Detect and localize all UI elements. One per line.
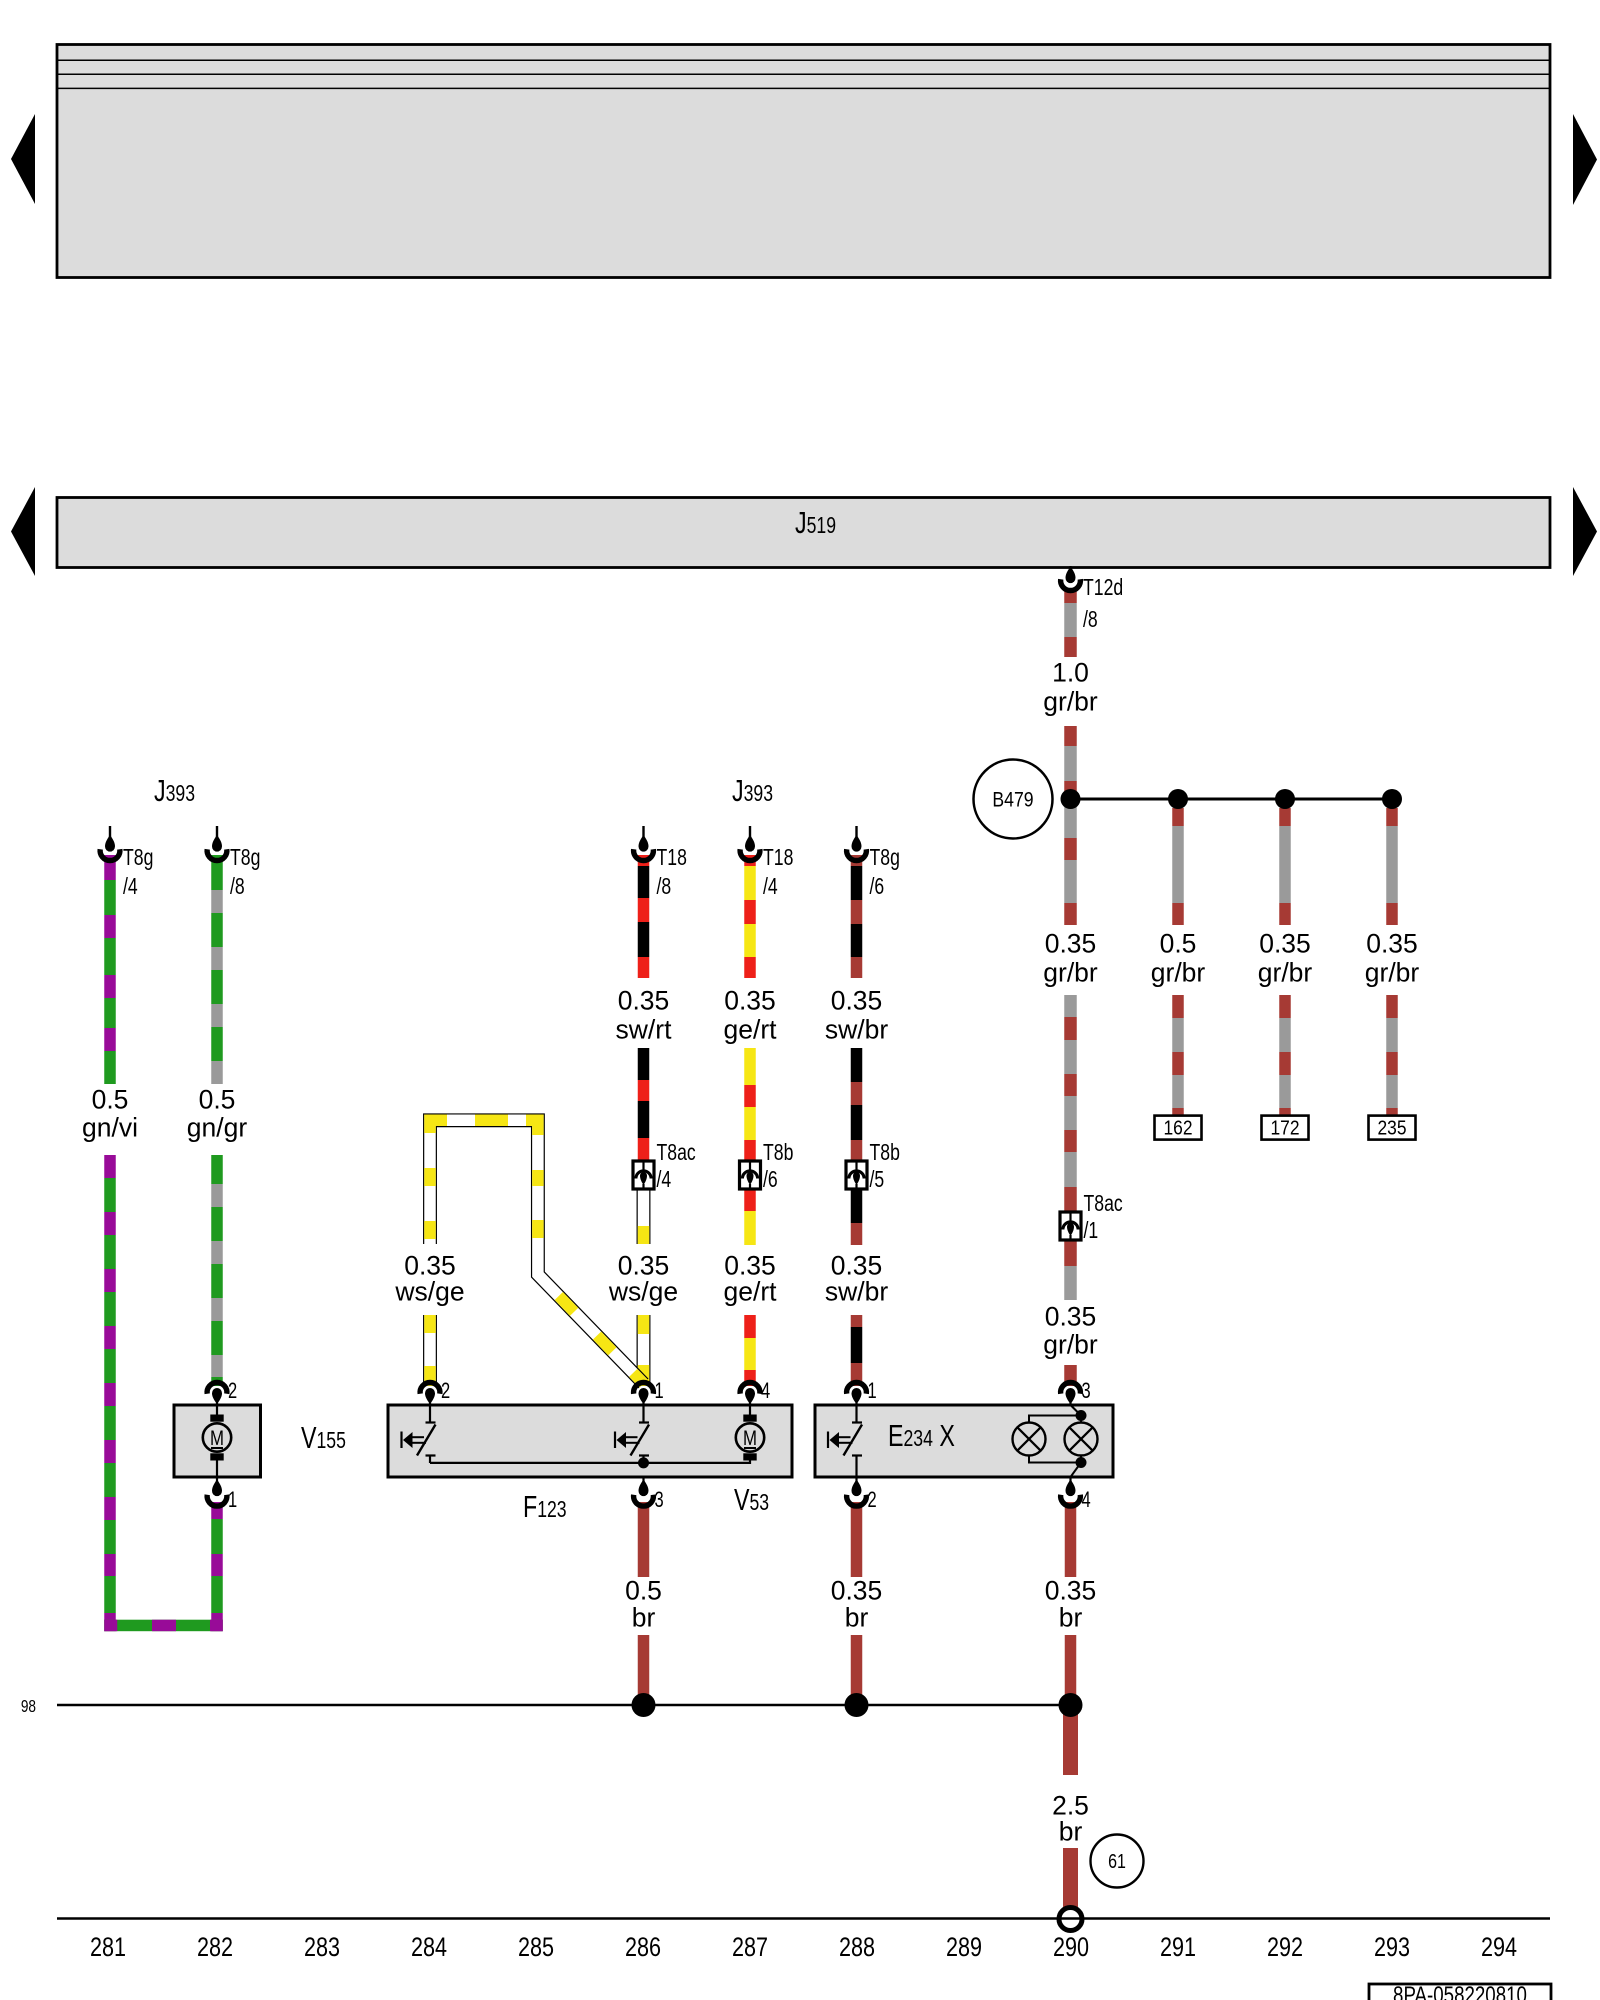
svg-text:/1: /1 (1084, 1218, 1099, 1244)
svg-text:3: 3 (655, 1488, 664, 1513)
svg-text:/8: /8 (230, 874, 245, 900)
svg-text:283: 283 (304, 1933, 340, 1963)
svg-text:3: 3 (1082, 1379, 1091, 1404)
wire ws/ge below T8ac/4 (637, 1189, 651, 1244)
wire gn/vi from V155 pin 1 (211, 1502, 223, 1631)
wire label 0.35 gr/br (lower) (1043, 1301, 1098, 1359)
svg-text:2: 2 (868, 1488, 877, 1513)
wire 0.5 gn/gr column 282 (upper) (211, 855, 223, 1084)
wire label 2.5 br (1052, 1790, 1089, 1846)
svg-text:br: br (1059, 1602, 1083, 1632)
wire label 0.35 sw/rt (616, 985, 673, 1044)
switch E234 box (815, 1405, 1113, 1477)
svg-text:/4: /4 (763, 874, 778, 900)
wire 0.35 br from E234 pin 2 (851, 1502, 863, 1577)
wire 0.35 br from E234 pin 4 (1065, 1502, 1077, 1577)
svg-text:/8: /8 (657, 874, 672, 900)
lamp junction dot bottom (1076, 1457, 1087, 1468)
svg-text:ws/ge: ws/ge (608, 1276, 678, 1306)
node junction dot 292 (1275, 789, 1295, 809)
bottom rail (57, 1917, 1550, 1920)
wire label 0.35 gr/br column 290 (1043, 928, 1098, 987)
svg-text:F123: F123 (523, 1489, 567, 1524)
svg-text:172: 172 (1270, 1117, 1299, 1140)
pin 1 of V155 (207, 1477, 237, 1513)
svg-text:293: 293 (1374, 1933, 1410, 1963)
svg-text:T18: T18 (657, 845, 687, 871)
svg-text:0.35: 0.35 (1045, 928, 1097, 958)
wire sw/br (above T8b/5) (851, 1048, 863, 1161)
svg-text:/5: /5 (870, 1167, 885, 1193)
pin 4 of V53 (740, 1379, 770, 1405)
svg-text:/8: /8 (1083, 607, 1098, 633)
connector T8g/8 (207, 826, 260, 900)
wire label 0.35 ge/rt (723, 985, 777, 1044)
inline connector T8ac/1 (1060, 1191, 1123, 1244)
svg-text:0.5: 0.5 (199, 1084, 236, 1114)
ground junction dot 290 (1059, 1693, 1083, 1717)
svg-text:gr/br: gr/br (1151, 957, 1206, 987)
svg-text:gr/br: gr/br (1258, 957, 1313, 987)
pin 3 of F123 (634, 1477, 664, 1513)
svg-text:0.35: 0.35 (1045, 1575, 1097, 1605)
connector T12d/8 on J519 (1061, 566, 1124, 633)
lamp internal wiring top (1029, 1405, 1081, 1423)
svg-text:1: 1 (868, 1379, 877, 1404)
connector T8g/6 (847, 826, 900, 900)
inline connector T8b/5 (846, 1140, 900, 1193)
wire 0.35 br to ground node (288) (851, 1635, 863, 1705)
node junction dot 290 (1061, 789, 1081, 809)
svg-text:8PA-058220810: 8PA-058220810 (1393, 1982, 1527, 2000)
page-turn arrow left (top) (11, 114, 35, 204)
node line to B479 branches (1071, 798, 1393, 801)
wire gn/vi bottom elbow (horizontal) (104, 1620, 223, 1632)
switch unit F123 box (388, 1405, 792, 1477)
wire 0.5 gn/vi column 281 (upper) (104, 855, 116, 1084)
svg-text:0.35: 0.35 (618, 985, 670, 1015)
svg-text:0.35: 0.35 (831, 1575, 883, 1605)
wire label 0.5 gn/gr (187, 1084, 248, 1142)
wire gr/br column 290 (middle) (1064, 995, 1077, 1212)
wire label 0.35 br (column 290) (1045, 1575, 1097, 1632)
motor symbol M (V53) (736, 1405, 764, 1461)
wire gr/br column 293 (lower) (1386, 995, 1398, 1116)
svg-text:br: br (1059, 1816, 1083, 1846)
svg-text:T8g: T8g (123, 845, 153, 871)
wire sw/rt (above T8ac/4) (638, 1048, 650, 1161)
wire ge/rt into V53 pin 4 (744, 1315, 756, 1386)
wire 1.0 gr/br (above node B479) (1064, 726, 1077, 799)
svg-text:286: 286 (625, 1933, 661, 1963)
wire ws/ge loop (pin2 up, across, down, diagonal to pin1) (430, 1120, 644, 1383)
connector T8g/4 (100, 826, 153, 900)
wire label 0.35 br (column 288) (831, 1575, 883, 1632)
wire ws/ge into F123 pin 2 (423, 1315, 437, 1386)
current track numbers 281-294 (90, 1933, 1517, 1963)
connector T18/4 (740, 826, 793, 900)
wire 0.35 sw/rt (upper) (638, 855, 650, 978)
svg-text:gr/br: gr/br (1365, 957, 1420, 987)
wire sw/br below T8b/5 (851, 1189, 863, 1245)
wire 2.5 br (upper) (1063, 1711, 1078, 1775)
svg-text:/4: /4 (657, 1167, 672, 1193)
svg-text:gn/gr: gn/gr (187, 1112, 248, 1142)
svg-text:0.35: 0.35 (724, 985, 776, 1015)
svg-text:/6: /6 (763, 1167, 778, 1193)
page-turn arrow right (J519) (1573, 487, 1597, 576)
wire gn/vi column 281 (lower) (104, 1155, 116, 1631)
wire 0.35 sw/br (upper) (851, 855, 863, 978)
wire label 0.35 sw/br (lower) (825, 1250, 888, 1306)
svg-text:sw/rt: sw/rt (616, 1014, 673, 1044)
wire 1.0 gr/br from T12d (upper) (1064, 589, 1077, 657)
wire gr/br column 293 (upper) (1386, 808, 1398, 925)
switch contact F123 (pin 2) (402, 1405, 436, 1463)
svg-text:1.0: 1.0 (1052, 657, 1089, 687)
svg-text:gr/br: gr/br (1043, 957, 1098, 987)
wire 0.5 br to ground node (638, 1635, 650, 1705)
svg-text:T8g: T8g (230, 845, 260, 871)
svg-text:287: 287 (732, 1933, 768, 1963)
svg-text:1: 1 (655, 1379, 664, 1404)
svg-text:291: 291 (1160, 1933, 1196, 1963)
svg-text:162: 162 (1163, 1117, 1192, 1140)
svg-text:282: 282 (197, 1933, 233, 1963)
wire gr/br column 290 (below node) (1064, 799, 1077, 925)
ground connection 61 circle (1091, 1835, 1144, 1888)
wire label 0.5 br (625, 1575, 662, 1632)
internal junction dot F123 (638, 1457, 649, 1468)
wire gr/br column 292 (lower) (1279, 995, 1291, 1116)
svg-text:sw/br: sw/br (825, 1276, 888, 1306)
pin 4 of E234 (1061, 1477, 1091, 1513)
wire label 0.35 gr/br column 292 (1258, 928, 1313, 987)
ground junction dot 286 (632, 1693, 656, 1717)
svg-text:281: 281 (90, 1933, 126, 1963)
node junction dot 293 (1382, 789, 1402, 809)
svg-text:sw/br: sw/br (825, 1014, 888, 1044)
wire ws/ge into F123 pin 1 (vertical) (637, 1315, 651, 1386)
control module bar (top, unlabeled) (57, 45, 1550, 278)
svg-text:0.35: 0.35 (831, 985, 883, 1015)
wire gr/br into E234 pin 3 (1064, 1365, 1077, 1386)
svg-text:br: br (632, 1602, 656, 1632)
control module J519 bar (57, 498, 1550, 568)
internal bus line F123 (430, 1460, 750, 1463)
wire label 0.35 ws/ge (column 286) (608, 1250, 678, 1306)
wire gr/br column 291 (upper) (1172, 808, 1184, 925)
wire label 1.0 gr/br (1043, 657, 1098, 716)
page-turn arrow right (top) (1573, 114, 1597, 205)
wire destination box 162 (1155, 1116, 1202, 1140)
svg-text:B479: B479 (992, 788, 1033, 812)
pin 1 of E234 (847, 1379, 877, 1405)
svg-text:290: 290 (1053, 1933, 1089, 1963)
svg-text:br: br (845, 1602, 869, 1632)
svg-text:0.5: 0.5 (625, 1575, 662, 1605)
inline connector T8b/6 (740, 1140, 794, 1193)
svg-text:T8b: T8b (870, 1140, 900, 1166)
wire ge/rt below T8b/6 (744, 1189, 756, 1245)
svg-text:ge/rt: ge/rt (723, 1014, 777, 1044)
svg-text:/6: /6 (870, 874, 885, 900)
pin 3 of E234 (1061, 1379, 1091, 1405)
svg-text:T8ac: T8ac (657, 1140, 696, 1166)
node junction dot 291 (1168, 789, 1188, 809)
svg-text:gn/vi: gn/vi (82, 1112, 138, 1142)
lead V155 motor to pin 1 (216, 1460, 218, 1477)
lamp symbol left (E234 illumination) (1013, 1423, 1046, 1456)
pin 1 of F123 (634, 1379, 664, 1405)
wire gr/br below T8ac/1 (1064, 1240, 1077, 1300)
svg-text:J393: J393 (732, 773, 773, 808)
pin 2 of F123 (420, 1379, 450, 1405)
svg-text:T8b: T8b (763, 1140, 793, 1166)
svg-text:T8g: T8g (870, 845, 900, 871)
wire 0.35 ge/rt (upper) (744, 855, 756, 978)
svg-text:4: 4 (1082, 1488, 1091, 1513)
svg-text:285: 285 (518, 1933, 554, 1963)
svg-text:1: 1 (228, 1488, 237, 1513)
ground bus line 98 (57, 1704, 1071, 1707)
wire label 0.35 ws/ge (column 284) (394, 1250, 464, 1306)
svg-text:ge/rt: ge/rt (723, 1276, 777, 1306)
wire destination box 172 (1262, 1116, 1309, 1140)
wire label 0.35 gr/br column 293 (1365, 928, 1420, 987)
svg-text:J393: J393 (154, 773, 195, 808)
svg-text:gr/br: gr/br (1043, 686, 1098, 716)
lamp internal wiring bottom (1029, 1455, 1081, 1477)
svg-text:0.35: 0.35 (1366, 928, 1418, 958)
ground point B479 circle (974, 760, 1053, 839)
wire 0.5 br from F123 pin 3 (638, 1502, 650, 1577)
wire destination box 235 (1369, 1116, 1416, 1140)
svg-text:T8ac: T8ac (1084, 1191, 1123, 1217)
svg-text:V53: V53 (734, 1482, 769, 1517)
svg-text:0.35: 0.35 (1259, 928, 1311, 958)
switch contact F123 (pin 1) (615, 1405, 649, 1463)
svg-text:294: 294 (1481, 1933, 1517, 1963)
svg-text:0.35: 0.35 (1045, 1301, 1097, 1331)
svg-text:2: 2 (228, 1379, 237, 1404)
svg-text:ws/ge: ws/ge (394, 1276, 464, 1306)
switch contact E234 (pin 1) (828, 1405, 862, 1477)
svg-text:292: 292 (1267, 1933, 1303, 1963)
svg-text:T12d: T12d (1083, 575, 1123, 601)
wire label 0.35 ge/rt (lower) (723, 1250, 777, 1306)
svg-text:/4: /4 (123, 874, 138, 900)
lamp symbol right (E234 illumination) (1065, 1423, 1098, 1456)
ground junction dot 288 (845, 1693, 869, 1717)
pin 2 of V155 (207, 1379, 237, 1405)
wire 0.35 br to ground node (290) (1065, 1635, 1077, 1705)
wire gr/br column 292 (upper) (1279, 808, 1291, 925)
svg-text:98: 98 (21, 1698, 36, 1717)
svg-text:2: 2 (441, 1379, 450, 1404)
svg-text:235: 235 (1377, 1117, 1406, 1140)
wire label 0.5 gr/br column 291 (1151, 928, 1206, 987)
connector T18/8 (634, 826, 687, 900)
svg-text:T18: T18 (763, 845, 793, 871)
lamp junction dot top (1076, 1410, 1087, 1421)
svg-text:gr/br: gr/br (1043, 1329, 1098, 1359)
motor symbol M (V155) (203, 1405, 231, 1461)
svg-text:V155: V155 (301, 1420, 346, 1455)
wire gn/gr column 282 into V155 pin 2 (211, 1155, 223, 1386)
motor V155 box (174, 1405, 261, 1477)
svg-text:288: 288 (839, 1933, 875, 1963)
svg-text:0.5: 0.5 (92, 1084, 129, 1114)
page-turn arrow left (J519) (11, 487, 35, 576)
pin 2 of E234 (847, 1477, 877, 1513)
svg-text:284: 284 (411, 1933, 447, 1963)
wire 2.5 br (lower) (1063, 1848, 1078, 1910)
svg-text:289: 289 (946, 1933, 982, 1963)
diagram number box 8PA-058220810 (1369, 1982, 1551, 2000)
wire label 0.5 gn/vi (82, 1084, 138, 1142)
svg-text:61: 61 (1108, 1850, 1126, 1872)
inline connector T8ac/4 (633, 1140, 696, 1193)
ground terminal ring (1059, 1908, 1082, 1931)
svg-text:0.5: 0.5 (1160, 928, 1197, 958)
wire ge/rt (above T8b/6) (744, 1048, 756, 1161)
svg-text:4: 4 (761, 1379, 770, 1404)
wire gr/br column 291 (lower) (1172, 995, 1184, 1116)
wire sw/br into E234 pin 1 (851, 1315, 863, 1386)
wire label 0.35 sw/br (825, 985, 888, 1044)
